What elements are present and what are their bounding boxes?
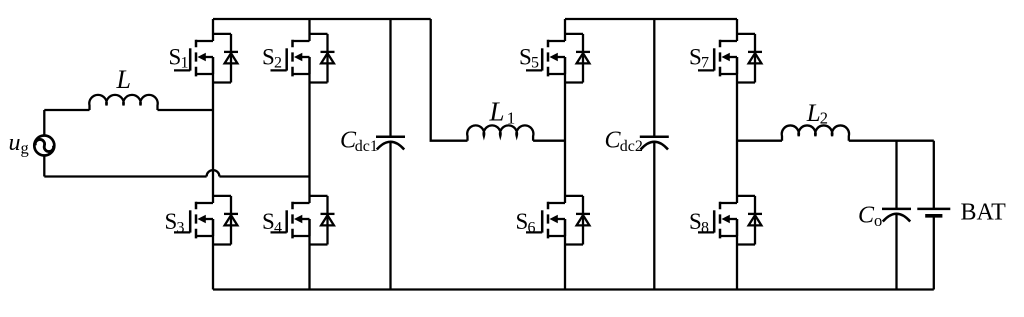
inductor L1 — [467, 125, 533, 140]
svg-text:1: 1 — [181, 55, 189, 72]
svg-text:3: 3 — [177, 220, 185, 237]
wire hop to leg2 — [219, 175, 309, 177]
svg-text:7: 7 — [701, 55, 709, 72]
svg-text:S: S — [689, 44, 702, 69]
wire top rail 2 — [565, 18, 737, 20]
svg-text:S: S — [169, 44, 182, 69]
wire leg4 to L2 — [737, 140, 782, 142]
svg-text:5: 5 — [531, 55, 539, 72]
svg-text:S: S — [262, 44, 275, 69]
wire top rail 1 — [213, 18, 431, 20]
wire rail1 drop to L1 — [431, 19, 468, 141]
transistor S7 with body diode — [698, 34, 762, 83]
transistor S3 with body diode — [174, 196, 238, 245]
svg-text:BAT: BAT — [961, 200, 1007, 226]
svg-text:g: g — [21, 138, 29, 157]
capacitor Co — [895, 141, 897, 209]
svg-text:dc2: dc2 — [620, 138, 643, 155]
transistor S6 with body diode — [526, 196, 590, 245]
svg-text:S: S — [516, 209, 529, 234]
transistor S2 with body diode — [271, 34, 335, 83]
svg-text:2: 2 — [274, 55, 282, 72]
transistor S8 with body diode — [698, 196, 762, 245]
inductor L — [89, 95, 157, 110]
battery BAT — [933, 141, 935, 209]
svg-text:L: L — [116, 65, 131, 94]
svg-text:dc1: dc1 — [355, 138, 378, 155]
wire L to leg1 — [158, 109, 214, 111]
svg-text:6: 6 — [528, 220, 536, 237]
svg-text:L: L — [806, 100, 821, 127]
svg-text:1: 1 — [507, 108, 516, 127]
wire leg4 (S7/S8 leg) — [736, 19, 738, 290]
wire ug bottom to leg2 with hop over leg1 — [44, 175, 206, 177]
wire ug to inductor L — [44, 109, 89, 111]
svg-text:8: 8 — [701, 220, 709, 237]
wire leg2 (S2/S4 leg) — [308, 19, 310, 290]
wire hop over leg1 — [207, 170, 220, 176]
wire leg1 (S1/S3 leg) — [212, 19, 214, 290]
svg-text:4: 4 — [274, 220, 282, 237]
wire ug top lead — [43, 110, 45, 136]
svg-text:L: L — [489, 97, 505, 127]
wire L1 to leg3 — [533, 140, 565, 142]
capacitor Cdc2 — [653, 19, 655, 137]
capacitor Cdc1 — [389, 19, 391, 137]
svg-text:S: S — [165, 209, 178, 234]
svg-text:S: S — [262, 209, 275, 234]
svg-text:S: S — [519, 44, 532, 69]
wire L2 to battery — [849, 140, 934, 142]
svg-text:S: S — [689, 209, 702, 234]
wire leg3 (S5/S6 leg) — [564, 19, 566, 290]
svg-text:2: 2 — [820, 109, 828, 128]
wire ug bottom lead — [43, 155, 45, 176]
inductor L2 — [782, 125, 849, 140]
svg-text:o: o — [874, 211, 882, 230]
svg-text:u: u — [9, 130, 21, 156]
transistor S1 with body diode — [174, 34, 238, 83]
transistor S4 with body diode — [271, 196, 335, 245]
AC source ug — [34, 136, 54, 156]
svg-text:C: C — [858, 203, 875, 229]
transistor S5 with body diode — [526, 34, 590, 83]
wire bottom rail — [213, 288, 934, 290]
